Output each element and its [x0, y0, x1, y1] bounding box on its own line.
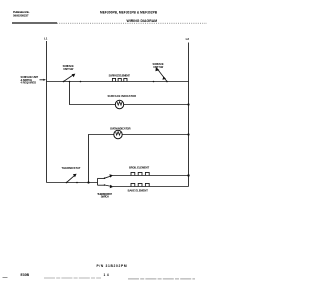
svg-text:14: 14 — [104, 273, 109, 277]
svg-text:UNIT SW: UNIT SW — [63, 67, 74, 71]
svg-text:E30B: E30B — [21, 273, 30, 277]
svg-text:P/N 31B202PM: P/N 31B202PM — [97, 264, 127, 268]
svg-text:MEF300PB, MEF301PB & MEF302PB: MEF300PB, MEF301PB & MEF302PB — [100, 11, 158, 15]
svg-text:THERMOSTAT: THERMOSTAT — [62, 166, 81, 170]
svg-text:BROIL ELEMENT: BROIL ELEMENT — [129, 166, 149, 170]
svg-text:BAKE ELEMENT: BAKE ELEMENT — [128, 188, 149, 192]
svg-text:L1: L1 — [44, 36, 48, 40]
svg-text:UNIT SW: UNIT SW — [153, 65, 164, 69]
svg-text:4 REQUIRED: 4 REQUIRED — [21, 80, 37, 84]
svg-text:WIRING DIAGRAM: WIRING DIAGRAM — [127, 19, 158, 23]
svg-text:OVEN INDICATOR: OVEN INDICATOR — [110, 127, 131, 131]
svg-text:5995208237: 5995208237 — [13, 14, 29, 18]
svg-text:L2: L2 — [186, 37, 190, 41]
svg-text:SWITCH: SWITCH — [101, 195, 109, 199]
svg-text:SURFACE INDICATOR: SURFACE INDICATOR — [108, 94, 137, 98]
svg-text:SURFACE ELEMENT: SURFACE ELEMENT — [109, 73, 131, 77]
